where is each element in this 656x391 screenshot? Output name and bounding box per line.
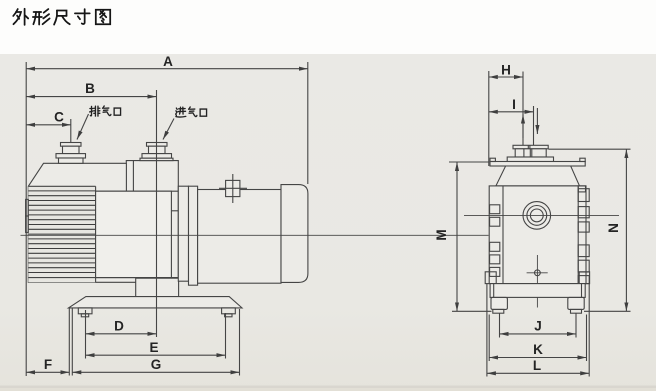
- mounting ring 2: [189, 186, 198, 285]
- extension line left (A/B/C/F): [25, 62, 27, 376]
- front cover tabs: [26, 199, 29, 216]
- inspection panel: [96, 191, 172, 277]
- main horizontal centerline: [21, 234, 489, 236]
- dimension N: [625, 149, 627, 311]
- dimension E: [86, 354, 226, 356]
- extension line exhaust centerline: [70, 119, 72, 158]
- junction box: [226, 180, 240, 196]
- svg-text:F: F: [44, 357, 52, 372]
- label 进气口 (intake port): [176, 107, 207, 117]
- intake port cylinder: [149, 146, 166, 153]
- dimension K: [489, 357, 586, 359]
- sight glass centerline: [464, 214, 619, 216]
- extension E right: [225, 313, 227, 359]
- oil tank top (trapezoid): [496, 166, 580, 186]
- bottom corner tab left: [485, 272, 496, 284]
- extension line A right: [307, 62, 309, 184]
- extension N bottom: [584, 310, 631, 312]
- exhaust port plinth: [59, 158, 84, 163]
- dimension C: [26, 124, 71, 126]
- dimension B: [26, 96, 156, 98]
- bracket step line: [171, 210, 178, 212]
- svg-text:E: E: [149, 340, 158, 355]
- drain plug circle: [535, 270, 541, 276]
- extension I right: [533, 106, 535, 146]
- label 排气口 (exhaust port): [90, 106, 121, 116]
- extension line intake centerline: [156, 90, 158, 337]
- dimension J: [500, 333, 577, 335]
- port centerline right through flange: [536, 145, 538, 172]
- base foot right: [222, 308, 236, 314]
- top plate: [490, 162, 585, 167]
- junction box centerlines: [232, 174, 234, 203]
- svg-text:G: G: [151, 357, 162, 372]
- extension port centerline left: [522, 72, 524, 175]
- svg-text:A: A: [163, 54, 173, 69]
- dimension A: [26, 68, 308, 70]
- exhaust port cylinder: [63, 146, 80, 153]
- svg-text:D: D: [114, 319, 124, 334]
- motor end cap: [281, 185, 308, 283]
- dimension I: [489, 111, 534, 113]
- 图: [96, 10, 110, 24]
- svg-text:N: N: [606, 223, 621, 233]
- dimension G: [72, 371, 239, 373]
- extension L left: [486, 284, 488, 377]
- exhaust port cap: [61, 143, 82, 147]
- svg-text:I: I: [512, 97, 516, 112]
- motor body: [198, 190, 281, 284]
- 形: [33, 9, 50, 24]
- all drawing linework: [21, 62, 631, 377]
- body bottom line: [28, 277, 178, 279]
- foot left end view: [491, 297, 507, 309]
- down arrow on body centerline: [536, 108, 538, 134]
- extension D/E left: [85, 310, 87, 359]
- pedestal under body: [136, 278, 179, 296]
- base foot left: [78, 308, 92, 314]
- pump body outline left view: [28, 161, 178, 283]
- port caps (end view): [513, 145, 548, 149]
- extension F right: [68, 308, 70, 376]
- cooling fins: [28, 191, 95, 273]
- dimension letters: [44, 54, 621, 373]
- oil sight glass: [523, 202, 551, 230]
- svg-text:J: J: [534, 319, 542, 334]
- extension J left: [499, 314, 501, 338]
- intake block edge lines: [125, 163, 127, 191]
- svg-text:K: K: [533, 342, 543, 357]
- mounting ring 1: [178, 186, 188, 281]
- foot right end view: [568, 297, 584, 309]
- extension N top: [549, 148, 631, 150]
- up arrow on port centerline: [522, 115, 524, 139]
- scan bottom edge shadow: [0, 386, 656, 389]
- extension G left: [71, 308, 73, 376]
- extension M bottom: [452, 310, 492, 312]
- left ribs: [490, 205, 500, 214]
- extension G right: [239, 309, 241, 376]
- 外: [13, 9, 28, 25]
- leader exhaust port: [77, 114, 89, 140]
- base plate: [69, 297, 243, 308]
- bottom corner tab right: [579, 272, 589, 284]
- intake port flange: [142, 154, 172, 159]
- dimension M: [456, 162, 458, 311]
- svg-text:L: L: [533, 358, 541, 373]
- port flange plate: [507, 157, 553, 162]
- extension J right: [575, 314, 577, 338]
- svg-text:H: H: [501, 63, 511, 78]
- drain centerlines: [527, 272, 548, 274]
- right ribs: [578, 189, 589, 202]
- extension K right: [586, 315, 588, 362]
- dimension H: [489, 76, 523, 78]
- dimension F: [26, 371, 69, 373]
- fins top edge: [28, 185, 95, 187]
- top plate end tabs: [490, 158, 495, 161]
- housing top line: [96, 190, 179, 192]
- svg-text:M: M: [434, 229, 449, 240]
- fins divider: [95, 186, 97, 282]
- extension M top: [449, 161, 489, 163]
- 寸: [75, 9, 90, 24]
- intake port plinth: [140, 158, 173, 160]
- extension H/I left: [488, 71, 490, 166]
- title 外形尺寸图 (hand-drawn glyph strokes): [13, 9, 110, 25]
- dimension L: [487, 372, 589, 374]
- fin block shading: [28, 186, 95, 282]
- 尺: [54, 11, 70, 25]
- body top-right step: [578, 186, 585, 192]
- bottom bar: [490, 284, 585, 298]
- svg-text:B: B: [85, 81, 95, 96]
- port cylinders (end view): [515, 149, 546, 157]
- svg-text:C: C: [54, 110, 64, 125]
- intake port cap: [147, 143, 168, 147]
- exhaust port flange: [56, 154, 86, 158]
- body inner vertical lines: [502, 186, 504, 284]
- pump body end view: [489, 186, 586, 284]
- extension L right: [588, 284, 590, 377]
- leader intake port: [163, 119, 174, 140]
- dimension D: [86, 333, 157, 335]
- extension K left: [488, 315, 490, 362]
